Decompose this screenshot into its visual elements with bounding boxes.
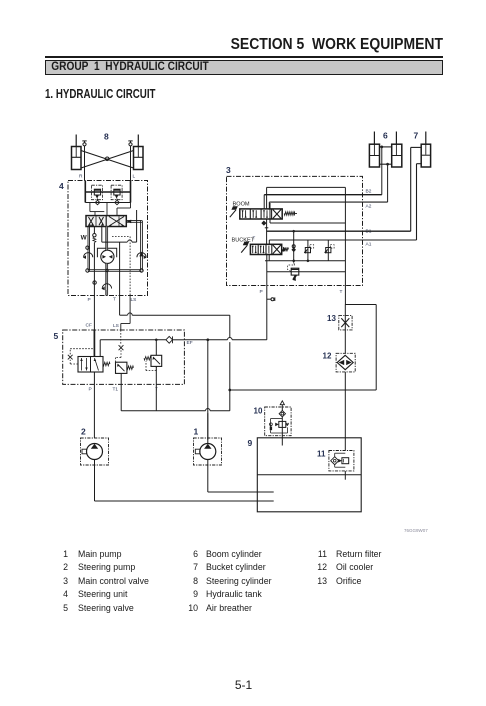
- steering valve right X: [109, 217, 124, 227]
- T-return vertical: [229, 315, 231, 337]
- shock valve bus: [85, 191, 130, 193]
- relief bus A: [265, 260, 345, 262]
- header underline: [45, 56, 443, 58]
- cross line b: [81, 151, 134, 169]
- A2 line out: [345, 201, 387, 203]
- P down to bus: [266, 255, 268, 286]
- R line into box4: [84, 181, 86, 203]
- bottom bus node: [106, 269, 108, 271]
- shock valve left: [92, 185, 103, 200]
- steering cylinder 8 right body: [134, 147, 144, 170]
- valve right link: [126, 220, 142, 222]
- A1 line out: [345, 239, 416, 241]
- LS jog to box5: [129, 296, 131, 324]
- cross joint circle: [105, 157, 109, 161]
- pump 2 triangle: [91, 444, 98, 449]
- cross line a: [81, 151, 134, 169]
- return into tank: [344, 471, 346, 480]
- EF check diamond: [166, 336, 173, 343]
- left double line: [87, 227, 89, 271]
- filter links: [334, 453, 336, 457]
- EF relief drop: [155, 340, 157, 356]
- LS relief spring: [127, 366, 134, 370]
- orifice 13 X: [341, 318, 349, 327]
- bucket valve X: [273, 245, 281, 254]
- inner top line: [267, 186, 346, 188]
- LS dotted vertical: [129, 237, 131, 296]
- right double line: [140, 221, 142, 271]
- boom top link: [380, 146, 392, 148]
- steering valve block: [86, 216, 126, 227]
- relief2 valve: [151, 355, 162, 366]
- B2 riser to cyl: [381, 147, 383, 195]
- EF to P line: [184, 339, 227, 341]
- right suction arc: [137, 253, 146, 258]
- relief2 spring: [144, 357, 151, 361]
- inner right vertical: [344, 187, 346, 304]
- bucket cyl rod: [425, 132, 427, 145]
- steering cylinder 8 left rod: [75, 135, 77, 147]
- return filter 11 box: [329, 451, 354, 471]
- return line B: [267, 271, 346, 273]
- loop riser: [375, 305, 377, 391]
- motor out double: [105, 263, 107, 295]
- boom valve cell ticks: [242, 210, 244, 218]
- gerotor arrows: [102, 255, 106, 259]
- boom cyl right body: [392, 144, 402, 167]
- pump 1 circle: [200, 444, 216, 460]
- P node circle: [93, 281, 96, 284]
- P between valves: [266, 219, 268, 244]
- orifice 13 box: [339, 316, 352, 330]
- figure code: [404, 528, 428, 533]
- pump 2 drain stub: [82, 449, 87, 454]
- boom valve X: [273, 210, 281, 219]
- tank oil level: [257, 474, 361, 476]
- steering cylinder 8 right rod: [137, 135, 139, 147]
- boom cyl left body: [369, 144, 379, 167]
- port relief 1: [305, 248, 310, 253]
- drop to valve 2: [106, 203, 108, 216]
- main relief arrow: [293, 275, 296, 280]
- A2 riser to cyl: [387, 164, 389, 202]
- boom B2 riser: [263, 195, 265, 209]
- loop top: [345, 304, 376, 306]
- relief vertical 3: [327, 240, 329, 261]
- B1 corner: [267, 230, 346, 232]
- return junction node: [229, 389, 231, 391]
- LS dashed in box5: [120, 330, 122, 345]
- filter diamond: [331, 457, 339, 465]
- bottom bus: [88, 269, 142, 271]
- T collector line: [101, 227, 103, 243]
- priority pilot dashed left: [70, 363, 78, 365]
- LS orifice X: [119, 345, 124, 350]
- T to collector: [119, 296, 121, 316]
- right line arrow up: [139, 252, 143, 257]
- shock valve right: [111, 185, 122, 200]
- cylinder drop line R: [84, 146, 86, 181]
- bus link right: [130, 192, 132, 203]
- P test stub: [267, 298, 271, 300]
- hydraulic tank 9: [257, 438, 361, 512]
- section 1 heading: [45, 87, 156, 101]
- boom bottom link: [380, 163, 392, 165]
- A1 from bucket: [268, 240, 270, 244]
- steering cylinder 8 left body: [72, 147, 82, 170]
- gerotor bracket: [97, 248, 116, 257]
- grease fitting left: [83, 143, 86, 146]
- bucket valve spring: [282, 247, 288, 251]
- bottom bus circle right: [140, 269, 143, 272]
- left suction arc: [84, 253, 93, 258]
- T internal vertical: [136, 210, 138, 242]
- page number: [0, 678, 486, 692]
- relief vertical 1: [293, 231, 295, 261]
- main relief valve: [291, 268, 299, 275]
- bottom bus circle left: [86, 269, 89, 272]
- bucket valve body: [250, 244, 281, 254]
- group bar: [45, 60, 443, 76]
- priority valve body: [78, 357, 103, 373]
- priority valve spring: [103, 362, 110, 366]
- P riser: [266, 286, 268, 340]
- boom A2 riser: [268, 202, 270, 209]
- pump 1 triangle: [204, 444, 211, 449]
- boom lever: [230, 210, 236, 217]
- T1T collector: [121, 410, 205, 412]
- gerotor motor circle: [101, 250, 114, 263]
- B2 line out: [345, 194, 381, 196]
- main relief pilot: [294, 262, 295, 266]
- T line box5: [155, 366, 157, 410]
- steering valve divider: [105, 216, 107, 227]
- LS dotted horizontal: [112, 236, 130, 238]
- cooler 12 diamond: [337, 355, 353, 369]
- pump 1 box: [194, 438, 222, 465]
- header: section title: [44, 36, 443, 54]
- breather arrow top: [280, 401, 284, 405]
- EF out of valve: [99, 340, 101, 357]
- pump1 suction: [207, 460, 209, 493]
- CF feed thick: [93, 330, 95, 357]
- return to loop: [230, 389, 376, 391]
- breather stem 2: [281, 417, 283, 446]
- LS relief valve: [116, 362, 127, 373]
- pump 2 box: [81, 438, 109, 465]
- breather stem: [281, 405, 283, 411]
- check node circle: [292, 245, 295, 248]
- breather loop: [271, 418, 283, 420]
- P-CF line: [93, 296, 95, 331]
- motor feed double: [105, 227, 107, 251]
- L line into box4: [130, 181, 132, 203]
- drop to valve 1: [89, 203, 91, 212]
- return through 13: [344, 305, 346, 354]
- inner box bottom (boom): [270, 222, 345, 224]
- B1 riser to cyl: [410, 147, 412, 231]
- pump2 suction: [94, 460, 96, 502]
- check node diamond: [292, 248, 295, 252]
- spring node circle: [93, 234, 96, 237]
- check diamond right: [115, 200, 120, 205]
- boom valve spring: [284, 212, 294, 215]
- steering valve left arrows: [89, 217, 94, 226]
- return through 12: [344, 372, 346, 451]
- breather diamond: [279, 411, 285, 417]
- boom valve body: [240, 209, 282, 219]
- pump 2 circle: [87, 444, 103, 460]
- cooler 12 arrows: [339, 360, 345, 365]
- cooler 12 box: [336, 353, 355, 372]
- bucket drop 2: [268, 255, 270, 261]
- air breather 10 box: [265, 407, 291, 436]
- relief2 pilot dashed: [155, 366, 157, 370]
- priority valve arrows: [81, 358, 83, 371]
- grease fitting right: [129, 143, 132, 146]
- bucket cyl body: [421, 144, 430, 167]
- EF line cont: [173, 339, 185, 341]
- filter valve: [342, 458, 349, 464]
- B1 line out: [345, 230, 410, 232]
- T port line: [119, 242, 121, 295]
- motor line arrow: [102, 284, 111, 289]
- EF line: [100, 339, 166, 341]
- pump 1 out line: [207, 408, 209, 443]
- steering valve box 5: [63, 330, 185, 384]
- left line circle: [86, 246, 89, 249]
- A1 riser to cyl: [416, 164, 418, 240]
- boom valve diamond: [262, 221, 266, 225]
- pilot orifice X: [68, 355, 73, 360]
- check bus: [85, 202, 130, 204]
- bucket lever: [241, 245, 247, 252]
- pump 1 to EF junction: [207, 340, 209, 409]
- boom cyl left rod: [373, 132, 375, 145]
- cylinder drop line L: [130, 146, 132, 181]
- boom cyl right rod: [395, 132, 397, 145]
- P line box5: [93, 372, 95, 438]
- breather valve: [279, 421, 286, 427]
- bucket valve ticks: [252, 246, 254, 254]
- steering unit box 4: [68, 181, 148, 296]
- pump 1 drain stub: [195, 449, 200, 454]
- bus link left: [84, 192, 86, 203]
- T1 line: [120, 373, 122, 410]
- main control valve box 3: [227, 176, 363, 285]
- drop to valve 3: [130, 203, 132, 209]
- check diamond left: [95, 200, 100, 205]
- spring below node: [93, 237, 96, 243]
- port relief 2: [326, 248, 331, 253]
- relief vertical 2: [307, 240, 309, 261]
